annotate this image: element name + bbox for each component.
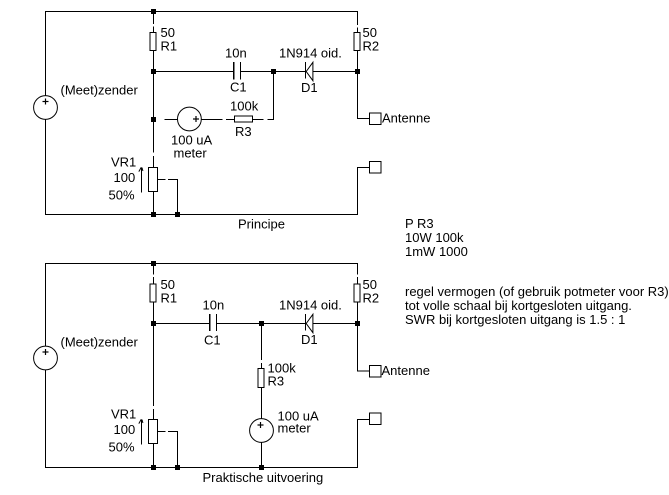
wire R2 top lead bbox=[357, 11, 359, 25]
wire VR1 wiper drop bbox=[177, 180, 179, 216]
wire meter right lead bbox=[201, 119, 222, 121]
wire VR1 bottom lead circuit 2 bbox=[153, 444, 155, 469]
svg-text:meter: meter bbox=[174, 146, 208, 161]
resistor R1 body circuit 2 bbox=[150, 284, 156, 302]
junction node B bbox=[271, 69, 276, 74]
wire node B to D1 bbox=[274, 71, 306, 73]
svg-text:50%: 50% bbox=[109, 440, 135, 455]
wire VR1 wiper drop circuit 2 bbox=[177, 432, 179, 469]
wire node A to meter branch bbox=[153, 71, 155, 122]
wire R3 riser to node B bbox=[273, 71, 275, 120]
svg-text:10W 100k: 10W 100k bbox=[405, 230, 464, 245]
svg-text:R1: R1 bbox=[161, 39, 178, 54]
wire meter left lead bbox=[165, 119, 178, 121]
wire VR1 wiper circuit 2 bbox=[158, 431, 166, 433]
svg-text:P R3: P R3 bbox=[405, 216, 434, 231]
junction bottom VR1 circuit 2 bbox=[151, 465, 156, 470]
wire top rail circuit 1 bbox=[45, 11, 358, 13]
potentiometer VR1 arrow circuit 2 bbox=[139, 419, 143, 444]
wire R2 bottom lead circuit 2 bbox=[357, 302, 359, 323]
resistor R3 (100k) body bbox=[235, 116, 253, 122]
wire node C down to antenna stub bbox=[357, 71, 359, 119]
svg-text:(Meet)zender: (Meet)zender bbox=[61, 83, 139, 98]
svg-text:Antenne: Antenne bbox=[382, 363, 430, 378]
meter M1 plus sign circuit 2 bbox=[258, 422, 264, 428]
wire R1 bottom lead bbox=[153, 51, 155, 72]
svg-text:SWR bij kortgesloten uitgang i: SWR bij kortgesloten uitgang is 1.5 : 1 bbox=[405, 312, 625, 327]
wire lower terminal stub circuit 1 bbox=[358, 167, 371, 169]
wire VR1 bottom lead bbox=[153, 192, 155, 216]
diode D1 cathode bar bbox=[305, 62, 307, 79]
meter M1 circle bbox=[178, 107, 202, 131]
diode D1 cathode bar circuit 2 bbox=[305, 314, 307, 331]
wire top rail circuit 2 bbox=[45, 263, 358, 265]
terminal Antenne circuit 2 bbox=[370, 366, 382, 378]
svg-text:(Meet)zender: (Meet)zender bbox=[61, 335, 139, 350]
capacitor C1 plates circuit 2 bbox=[210, 314, 217, 331]
meter M1 plus sign bbox=[193, 116, 199, 122]
wire C1 to node B bbox=[241, 71, 274, 73]
wire R3 right lead bbox=[253, 119, 264, 121]
terminal lower circuit 1 bbox=[370, 162, 382, 174]
svg-text:1N914 oid.: 1N914 oid. bbox=[279, 298, 342, 313]
junction node A bbox=[151, 69, 156, 74]
svg-text:C1: C1 bbox=[230, 80, 247, 95]
svg-text:VR1: VR1 bbox=[111, 155, 136, 170]
resistor R2 (50) body bbox=[354, 33, 360, 51]
svg-text:R2: R2 bbox=[363, 291, 380, 306]
wire R1 top lead bbox=[153, 11, 155, 24]
wire D1 to node C2 bbox=[313, 323, 358, 325]
wire R3 top lead circuit 2 bbox=[261, 323, 263, 360]
svg-text:meter: meter bbox=[278, 421, 312, 436]
svg-text:Praktische uitvoering: Praktische uitvoering bbox=[203, 470, 324, 485]
junction node A2 bbox=[151, 321, 156, 326]
diode D1 triangle circuit 2 bbox=[306, 314, 313, 332]
svg-text:10n: 10n bbox=[203, 298, 225, 313]
svg-text:VR1: VR1 bbox=[111, 407, 136, 422]
wire lower terminal riser circuit 1 bbox=[357, 167, 359, 215]
wire C1 left lead bbox=[153, 71, 234, 73]
meter M1 circle circuit 2 bbox=[250, 419, 274, 443]
svg-text:1N914 oid.: 1N914 oid. bbox=[279, 46, 342, 61]
wire left rail lower circuit 2 bbox=[45, 370, 47, 469]
wire bottom rail circuit 2 bbox=[45, 467, 358, 469]
svg-text:R3: R3 bbox=[235, 124, 252, 139]
wire antenna stub horizontal circuit 2 bbox=[358, 370, 371, 372]
wire lower terminal riser circuit 2 bbox=[357, 419, 359, 468]
svg-text:100: 100 bbox=[114, 170, 136, 185]
potentiometer VR1 arrow bbox=[139, 167, 143, 192]
junction bottom meter circuit 2 bbox=[259, 465, 264, 470]
wire left rail upper circuit 1 bbox=[45, 11, 47, 96]
wire node A2 down to VR1 bbox=[153, 323, 155, 406]
svg-text:Principe: Principe bbox=[238, 217, 285, 232]
svg-text:regel vermogen (of gebruik pot: regel vermogen (of gebruik potmeter voor… bbox=[405, 284, 669, 299]
source V1 (Meet)zender circle circuit 2 bbox=[34, 346, 58, 370]
wire lower terminal stub circuit 2 bbox=[358, 419, 371, 421]
svg-text:D1: D1 bbox=[301, 332, 318, 347]
resistor R1 (50) body bbox=[150, 33, 156, 51]
svg-text:Antenne: Antenne bbox=[382, 111, 430, 126]
wire antenna stub horizontal bbox=[358, 118, 371, 120]
wire node B2 to D1 circuit 2 bbox=[262, 323, 306, 325]
junction bottom wiper bbox=[175, 212, 180, 217]
svg-text:R1: R1 bbox=[161, 291, 178, 306]
wire left rail upper circuit 2 bbox=[45, 263, 47, 347]
wire D1 to node C bbox=[313, 71, 358, 73]
wire R2 bottom lead bbox=[357, 51, 359, 72]
wire R1 bottom lead circuit 2 bbox=[153, 302, 155, 323]
junction top of R1 bbox=[151, 9, 156, 14]
wire meter bottom lead circuit 2 bbox=[261, 442, 263, 468]
wire VR1 wiper bbox=[158, 179, 166, 181]
svg-text:C1: C1 bbox=[204, 333, 221, 348]
wire R3 to meter circuit 2 bbox=[261, 388, 263, 420]
svg-text:R2: R2 bbox=[363, 39, 380, 54]
resistor R2 body circuit 2 bbox=[354, 284, 360, 302]
svg-text:100k: 100k bbox=[230, 99, 259, 114]
terminal lower circuit 2 bbox=[370, 413, 382, 425]
potentiometer VR1 body bbox=[149, 168, 158, 192]
source V1 plus sign circuit 2 bbox=[43, 349, 49, 355]
junction node C bbox=[355, 69, 360, 74]
wire left rail lower circuit 1 bbox=[45, 119, 47, 215]
junction bottom wiper circuit 2 bbox=[175, 465, 180, 470]
svg-text:tot volle schaal bij kortgeslo: tot volle schaal bij kortgesloten uitgan… bbox=[405, 298, 632, 313]
junction bottom VR1 bbox=[151, 212, 156, 217]
wire R2 top lead circuit 2 bbox=[357, 263, 359, 275]
wire R1 top lead circuit 2 bbox=[153, 263, 155, 275]
junction meter branch bbox=[151, 117, 156, 122]
junction top of R1 circuit 2 bbox=[151, 261, 156, 266]
svg-text:1mW 1000: 1mW 1000 bbox=[405, 244, 468, 259]
terminal Antenne circuit 1 bbox=[370, 113, 382, 125]
svg-text:R3: R3 bbox=[268, 374, 285, 389]
svg-text:50%: 50% bbox=[109, 188, 135, 203]
wire C1 left lead circuit 2 bbox=[153, 323, 210, 325]
capacitor C1 plates bbox=[234, 62, 241, 80]
wire meter branch down to VR1 bbox=[153, 122, 155, 153]
source V1 plus sign bbox=[43, 99, 49, 105]
svg-text:100: 100 bbox=[114, 422, 136, 437]
wire C1 to node B2 bbox=[217, 323, 262, 325]
wire node C2 down to antenna stub bbox=[357, 323, 359, 372]
svg-text:D1: D1 bbox=[301, 80, 318, 95]
junction node B2 bbox=[259, 321, 264, 326]
junction node C2 bbox=[355, 321, 360, 326]
source V1 (Meet)zender circle bbox=[34, 96, 58, 120]
svg-text:10n: 10n bbox=[225, 46, 247, 61]
diode D1 triangle bbox=[306, 62, 313, 80]
wire bottom rail circuit 1 bbox=[45, 214, 358, 216]
potentiometer VR1 body circuit 2 bbox=[149, 420, 158, 444]
resistor R3 body circuit 2 bbox=[258, 369, 264, 388]
